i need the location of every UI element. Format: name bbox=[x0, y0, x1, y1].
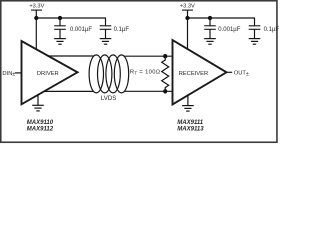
capacitor C3 0.001uF (right) bbox=[204, 18, 216, 39]
node: junction dot left rail / driver stem bbox=[34, 16, 38, 20]
wire: left supply stem to rail bbox=[35, 10, 37, 18]
wire: receiver bottom edge to ground bbox=[187, 95, 189, 105]
op-amp U1 driver triangle bbox=[22, 41, 78, 104]
wire: VCC stem down to receiver top edge bbox=[187, 18, 189, 49]
svg-text:+3.3V: +3.3V bbox=[29, 3, 44, 9]
svg-text:MAX9110: MAX9110 bbox=[27, 120, 54, 126]
svg-text:DIN±: DIN± bbox=[2, 71, 15, 78]
node: junction dot resistor bottom bbox=[163, 89, 167, 93]
svg-text:RECEIVER: RECEIVER bbox=[179, 71, 209, 77]
wire: twisted pair bottom to receiver bbox=[124, 90, 173, 92]
border frame bbox=[1, 1, 277, 143]
wire: DIN input to driver bbox=[15, 72, 22, 74]
capacitor C4 0.1uF (right) bbox=[249, 18, 261, 39]
wire: driver bottom edge to ground bbox=[37, 94, 39, 105]
svg-text:0.1µF: 0.1µF bbox=[264, 27, 280, 33]
wire: left VCC rail bbox=[36, 17, 105, 19]
supply label +3.3V (left) bbox=[29, 3, 44, 10]
svg-text:MAX9112: MAX9112 bbox=[27, 127, 54, 133]
wire: twisted pair top to receiver bbox=[124, 55, 173, 57]
ground under C4 bbox=[249, 39, 261, 45]
svg-text:OUT±: OUT± bbox=[234, 71, 249, 78]
ground under C1 bbox=[54, 39, 66, 45]
wire: driver top output to twisted pair bbox=[48, 55, 94, 57]
node: junction dot left rail / C1 bbox=[58, 16, 62, 20]
supply label +3.3V (right) bbox=[180, 3, 195, 10]
svg-text:0.001µF: 0.001µF bbox=[218, 27, 240, 33]
svg-text:MAX9113: MAX9113 bbox=[177, 127, 204, 133]
svg-text:RT = 100Ω: RT = 100Ω bbox=[130, 69, 161, 75]
wire: VCC stem down to driver top edge bbox=[35, 18, 37, 49]
wire: receiver output bbox=[227, 71, 233, 73]
wire: right supply stem to rail bbox=[187, 10, 189, 18]
capacitor C1 0.001uF (left) bbox=[54, 18, 66, 39]
svg-text:+3.3V: +3.3V bbox=[180, 3, 195, 9]
wire: right VCC rail bbox=[188, 17, 255, 19]
ground at driver bottom bbox=[32, 105, 44, 111]
op-amp U2 receiver triangle bbox=[173, 40, 227, 105]
ground at receiver bottom bbox=[182, 106, 194, 112]
svg-text:DRIVER: DRIVER bbox=[37, 71, 59, 77]
node: junction dot resistor top bbox=[163, 54, 167, 58]
node: junction dot right rail / C3 bbox=[208, 16, 212, 20]
wire: driver bottom output to twisted pair bbox=[44, 90, 93, 92]
resistor RT zigzag bbox=[162, 56, 169, 91]
capacitor C2 0.1uF (left) bbox=[100, 18, 112, 39]
svg-text:LVDS: LVDS bbox=[101, 95, 116, 102]
twisted pair loops bbox=[89, 55, 129, 93]
svg-text:0.001µF: 0.001µF bbox=[70, 27, 92, 33]
node: junction dot right rail / receiver stem bbox=[185, 16, 189, 20]
ground under C2 bbox=[100, 39, 112, 45]
svg-text:MAX9111: MAX9111 bbox=[177, 120, 203, 126]
ground under C3 bbox=[204, 39, 216, 45]
svg-text:0.1µF: 0.1µF bbox=[114, 27, 130, 33]
